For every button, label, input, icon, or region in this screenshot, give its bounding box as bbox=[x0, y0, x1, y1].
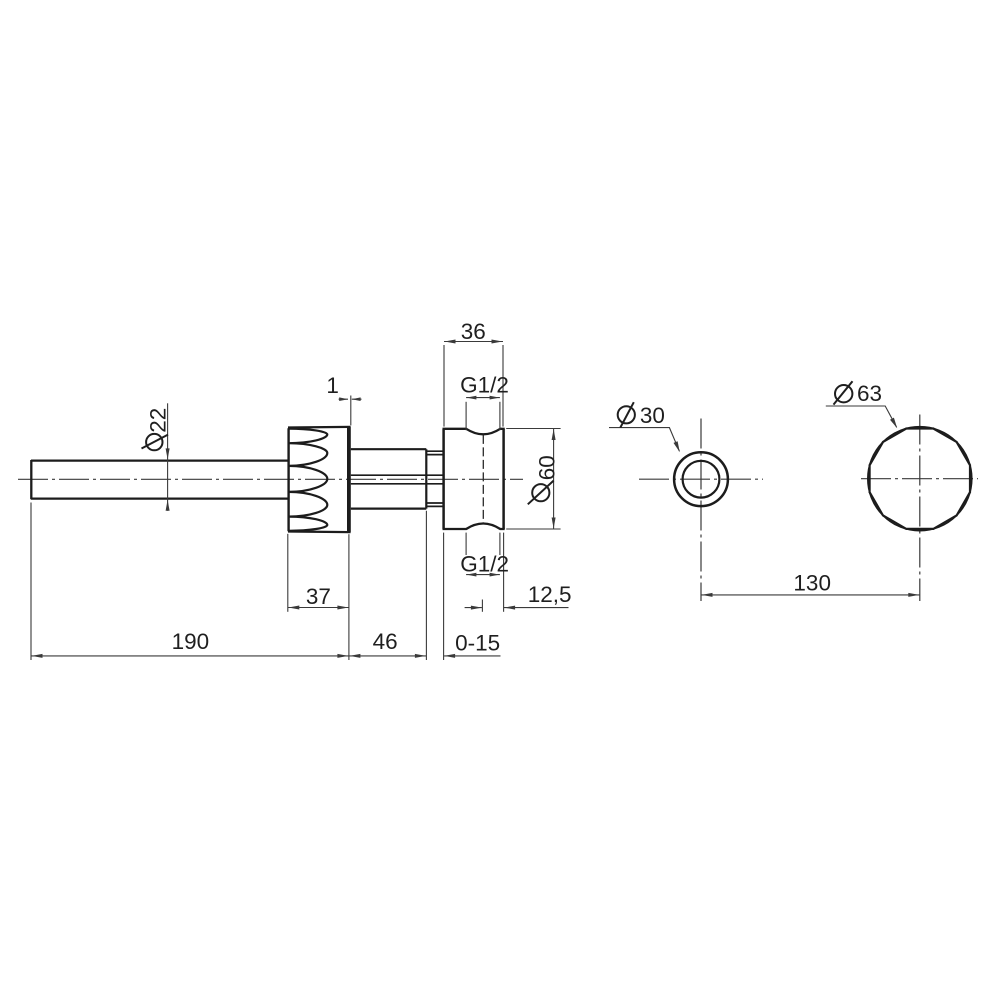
svg-text:36: 36 bbox=[461, 319, 486, 344]
svg-text:G1/2: G1/2 bbox=[460, 373, 509, 398]
svg-text:1: 1 bbox=[326, 373, 339, 398]
svg-text:22: 22 bbox=[145, 408, 170, 433]
svg-text:30: 30 bbox=[640, 403, 665, 428]
svg-text:0-15: 0-15 bbox=[455, 630, 500, 655]
svg-text:130: 130 bbox=[793, 571, 831, 596]
svg-text:G1/2: G1/2 bbox=[460, 552, 509, 577]
svg-text:12,5: 12,5 bbox=[528, 582, 572, 607]
svg-text:63: 63 bbox=[857, 381, 882, 406]
svg-text:46: 46 bbox=[373, 629, 398, 654]
svg-text:190: 190 bbox=[172, 629, 210, 654]
svg-text:37: 37 bbox=[306, 584, 331, 609]
svg-text:60: 60 bbox=[535, 455, 560, 480]
